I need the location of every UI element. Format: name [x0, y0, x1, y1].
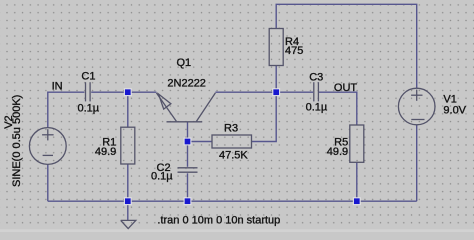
- wire V2 bottom: [47, 165, 49, 202]
- svg-text:IN: IN: [52, 81, 63, 93]
- junction collector node: [273, 89, 280, 96]
- voltage source V2 label: [3, 115, 15, 128]
- svg-text:9.0V: 9.0V: [443, 105, 466, 117]
- capacitor C3: [314, 82, 319, 101]
- wire C3 to OUT corner: [319, 92, 357, 125]
- voltage source V1 value 9.0V: [443, 105, 466, 117]
- svg-text:475: 475: [285, 45, 303, 57]
- capacitor C3 label: [309, 71, 323, 83]
- wire R4 bottom: [275, 66, 277, 93]
- voltage source V2 value SINE: [11, 95, 23, 187]
- capacitor C2 label: [157, 162, 171, 174]
- svg-text:49.9: 49.9: [327, 146, 348, 158]
- svg-text:0.1µ: 0.1µ: [151, 171, 173, 183]
- resistor R5 value 49.9: [327, 146, 348, 158]
- wire base node to R3: [188, 141, 213, 143]
- voltage source V1 label: [443, 93, 456, 105]
- resistor R4 value 475: [285, 45, 303, 57]
- wire C2 bottom: [187, 173, 189, 201]
- svg-text:2N2222: 2N2222: [167, 78, 206, 90]
- junction base node: [184, 138, 191, 145]
- svg-text:C3: C3: [309, 71, 323, 83]
- wire bottom rail: [48, 200, 417, 202]
- svg-text:OUT: OUT: [334, 82, 358, 94]
- resistor R3: [212, 135, 252, 148]
- wire C1 to emitter node: [91, 91, 156, 93]
- wire collector to C3: [215, 91, 313, 93]
- transistor Q1 value 2N2222: [167, 78, 206, 90]
- resistor R3 label: [224, 123, 238, 135]
- resistor R4 label: [285, 36, 299, 48]
- svg-text:0.1µ: 0.1µ: [78, 103, 100, 115]
- junction C2 ground: [184, 198, 191, 205]
- transistor Q1 label: [177, 57, 192, 69]
- wire R3 to collector node: [252, 92, 277, 141]
- voltage source V2: [29, 128, 66, 165]
- resistor R1: [121, 127, 135, 164]
- wire R1 bottom: [127, 164, 129, 201]
- capacitor C1: [86, 82, 91, 101]
- wire V1 bottom: [416, 125, 418, 201]
- resistor R3 value 47.5K: [219, 149, 248, 161]
- voltage source V1: [398, 88, 435, 125]
- wire R5 bottom: [356, 162, 358, 201]
- junction R5 ground: [353, 198, 360, 205]
- resistor R5: [350, 125, 364, 162]
- ground: [121, 220, 136, 228]
- svg-text:0.1µ: 0.1µ: [306, 101, 328, 113]
- wire R1 top: [127, 92, 129, 127]
- svg-text:Q1: Q1: [177, 57, 192, 69]
- spice directive .tran: [157, 214, 280, 226]
- wire IN from V2 to C1: [48, 92, 85, 128]
- resistor R1 label: [102, 136, 116, 148]
- wire top rail: [276, 4, 417, 88]
- node OUT label: [334, 82, 358, 94]
- junction R1 ground: [124, 198, 131, 205]
- svg-text:R3: R3: [224, 123, 238, 135]
- capacitor C3 value 0.1µ: [306, 101, 328, 113]
- svg-text:49.9: 49.9: [95, 146, 116, 158]
- node IN label: [52, 81, 63, 93]
- resistor R1 value 49.9: [95, 146, 116, 158]
- junction emitter node: [124, 89, 131, 96]
- svg-text:47.5K: 47.5K: [219, 149, 248, 161]
- capacitor C2 value 0.1µ: [151, 171, 173, 183]
- wire ground stub: [127, 201, 129, 220]
- wire base to C2: [187, 122, 189, 167]
- svg-text:.tran 0 10m 0 10n startup: .tran 0 10m 0 10n startup: [157, 214, 280, 226]
- svg-text:C1: C1: [81, 70, 95, 82]
- capacitor C1 value 0.1µ: [78, 103, 100, 115]
- svg-text:SINE(0 0.5u 500K): SINE(0 0.5u 500K): [11, 95, 23, 187]
- capacitor C2: [178, 168, 198, 172]
- resistor R4: [269, 29, 283, 66]
- resistor R5 label: [334, 136, 348, 148]
- capacitor C1 label: [81, 70, 95, 82]
- transistor Q1: [156, 93, 215, 122]
